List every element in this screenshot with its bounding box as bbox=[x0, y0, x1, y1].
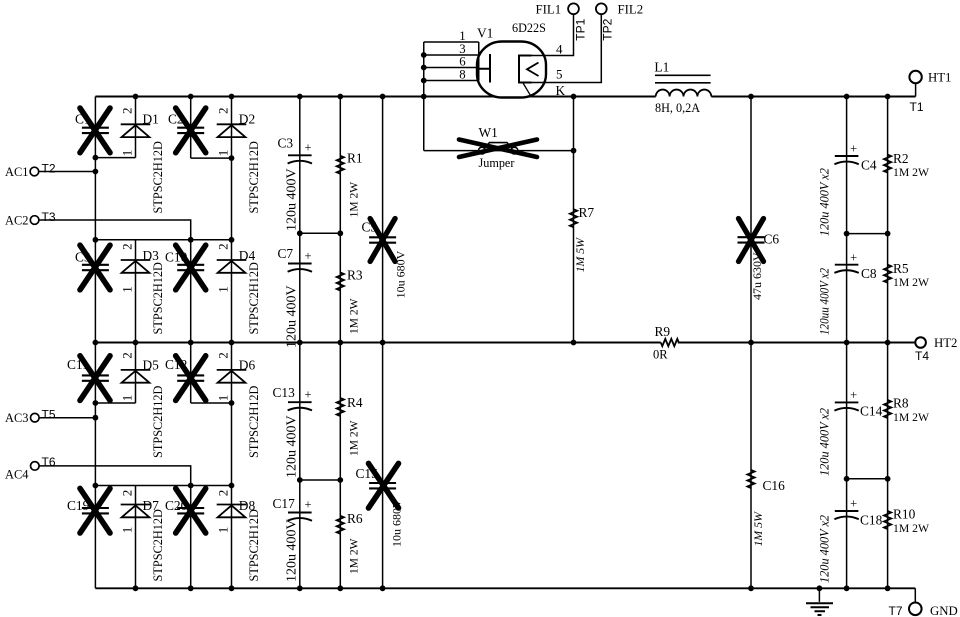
svg-text:1M 2W: 1M 2W bbox=[348, 538, 360, 574]
svg-text:D4: D4 bbox=[239, 248, 256, 263]
svg-text:AC2: AC2 bbox=[5, 214, 28, 228]
wire: C4/C8/C14/C18 column x=846.6 bbox=[846, 97, 848, 589]
svg-text:C7: C7 bbox=[278, 246, 294, 261]
svg-text:T4: T4 bbox=[915, 349, 929, 363]
wire: pin 4 to TP1 bbox=[532, 14, 574, 56]
svg-text:AC3: AC3 bbox=[5, 411, 28, 425]
svg-text:120u 400V: 120u 400V bbox=[285, 415, 300, 478]
wire: C6/C16 column x=751 bbox=[750, 97, 752, 589]
jumper W1 (crossed out) bbox=[459, 125, 537, 170]
svg-text:HT2: HT2 bbox=[934, 336, 957, 350]
resistor R9 0R (in HT2 rail) bbox=[653, 324, 679, 362]
wire: junction link C4-R2 bbox=[847, 233, 888, 235]
svg-text:10u 680V: 10u 680V bbox=[390, 499, 404, 547]
svg-text:HT1: HT1 bbox=[928, 71, 951, 85]
svg-text:T7: T7 bbox=[889, 604, 903, 617]
capacitor C3 120u 400V bbox=[278, 136, 312, 232]
svg-text:1: 1 bbox=[216, 286, 231, 293]
svg-text:120u 400V: 120u 400V bbox=[285, 519, 300, 582]
svg-text:1: 1 bbox=[216, 150, 231, 157]
svg-text:+: + bbox=[850, 142, 857, 156]
wire: row2 top link bbox=[95, 239, 231, 241]
capacitor C2 (crossed out) bbox=[168, 108, 206, 153]
svg-text:120u 400V x2: 120u 400V x2 bbox=[818, 168, 832, 236]
svg-text:+: + bbox=[304, 249, 311, 263]
capacitor C11 (crossed out) bbox=[67, 356, 110, 401]
svg-text:120u 400V: 120u 400V bbox=[285, 168, 300, 231]
svg-text:STPSC2H12D: STPSC2H12D bbox=[247, 509, 261, 582]
capacitor C18 120u 400V x2 bbox=[818, 497, 883, 583]
svg-text:4: 4 bbox=[556, 42, 563, 57]
svg-text:1: 1 bbox=[216, 527, 231, 534]
diode D7 bbox=[120, 490, 166, 582]
wire: row3 pair B bottom link bbox=[191, 402, 232, 404]
svg-text:R2: R2 bbox=[893, 151, 909, 166]
wire: C3/C7/C13/C17 column x=299.8 bbox=[299, 97, 301, 589]
resistor R5 1M 2W bbox=[884, 261, 930, 289]
svg-text:1: 1 bbox=[120, 395, 135, 402]
wire: junction link C3-R1 bbox=[300, 232, 341, 234]
svg-text:C4: C4 bbox=[861, 158, 877, 173]
svg-text:2: 2 bbox=[120, 107, 135, 114]
resistor R3 1M 2W bbox=[337, 268, 363, 335]
resistor R8 1M 2W bbox=[884, 396, 930, 425]
svg-text:C6: C6 bbox=[764, 232, 780, 247]
svg-text:2: 2 bbox=[120, 352, 135, 359]
svg-text:1: 1 bbox=[216, 395, 231, 402]
wire: C5/C15 column x=382.6 bbox=[382, 97, 384, 589]
wire: ladder left vertical and drop to jumper x=423.75 bbox=[423, 42, 425, 151]
resistor R10 1M 2W bbox=[884, 507, 930, 536]
svg-text:8H, 0,2A: 8H, 0,2A bbox=[655, 101, 700, 115]
svg-text:+: + bbox=[304, 498, 311, 512]
svg-text:8: 8 bbox=[459, 68, 465, 82]
junction dots: bridge row1 bottoms bbox=[93, 155, 235, 161]
svg-text:R4: R4 bbox=[347, 395, 363, 410]
wire: jumper net W1 horizontal bbox=[424, 150, 574, 152]
wire: bridge column A (C1/C9/C11/C19) vertical x=95.4 bbox=[94, 97, 96, 589]
svg-text:R7: R7 bbox=[579, 205, 595, 220]
svg-text:47u 630V: 47u 630V bbox=[750, 252, 764, 300]
svg-text:1M 5W: 1M 5W bbox=[751, 511, 765, 547]
wire: row1 pair B bottom link bbox=[191, 157, 232, 159]
svg-text:K: K bbox=[556, 83, 566, 98]
svg-text:1M 2W: 1M 2W bbox=[348, 298, 360, 334]
resistor R4 1M 2W bbox=[337, 395, 363, 456]
svg-text:D1: D1 bbox=[143, 112, 159, 127]
svg-text:1M 2W: 1M 2W bbox=[893, 276, 930, 289]
wire: R1/R3/R4/R6 column x=340.3 bbox=[339, 97, 341, 589]
svg-text:T1: T1 bbox=[910, 100, 924, 114]
svg-text:1M 2W: 1M 2W bbox=[893, 411, 930, 424]
wire: row4 top link bbox=[95, 485, 231, 487]
svg-text:R5: R5 bbox=[893, 261, 909, 276]
junction dots: C14-R8 link bbox=[844, 476, 891, 482]
resistor R7 1M 5W bbox=[570, 205, 595, 272]
wire: junction link C13-R4 bbox=[300, 479, 341, 481]
svg-text:120uu 400V x2: 120uu 400V x2 bbox=[818, 268, 832, 335]
svg-text:T3: T3 bbox=[42, 210, 56, 224]
capacitor C17 120u 400V bbox=[273, 496, 312, 582]
inductor L1 8H, 0.2A bbox=[654, 59, 711, 115]
diode D2 bbox=[216, 107, 262, 213]
ground symbol bbox=[806, 588, 833, 615]
svg-text:C3: C3 bbox=[278, 136, 294, 151]
wire: R2/R5/R8/R10 column x=887.6 bbox=[887, 97, 889, 589]
svg-text:TP1: TP1 bbox=[574, 18, 588, 40]
svg-text:TP2: TP2 bbox=[601, 18, 615, 40]
svg-text:D6: D6 bbox=[239, 357, 256, 372]
svg-text:1: 1 bbox=[120, 286, 135, 293]
capacitor C4 120u 400V x2 bbox=[818, 142, 877, 237]
junction dots: bridge row3 bottoms bbox=[93, 400, 235, 406]
tube V1 cathode bracket and heater arrow bbox=[519, 56, 539, 97]
svg-text:GND: GND bbox=[930, 604, 958, 617]
svg-text:T2: T2 bbox=[42, 162, 56, 176]
diode D8 bbox=[216, 490, 262, 582]
svg-text:0R: 0R bbox=[653, 348, 668, 362]
svg-text:2: 2 bbox=[120, 243, 135, 250]
junction dots: row2 top bbox=[93, 237, 235, 243]
svg-text:C14: C14 bbox=[860, 404, 883, 419]
diode D3 bbox=[120, 243, 166, 334]
svg-text:2: 2 bbox=[216, 352, 231, 359]
capacitor C10 (crossed out) bbox=[165, 245, 206, 290]
capacitor C14 120u 400V x2 bbox=[818, 388, 883, 476]
svg-text:6: 6 bbox=[459, 55, 466, 69]
svg-text:AC1: AC1 bbox=[5, 165, 28, 179]
resistor R2 1M 2W bbox=[884, 151, 930, 179]
terminal TP2 / FIL2 bbox=[596, 3, 643, 41]
resistor R6 1M 2W bbox=[337, 511, 363, 574]
svg-text:C18: C18 bbox=[860, 513, 883, 528]
svg-text:R9: R9 bbox=[655, 324, 671, 339]
svg-text:1M 2W: 1M 2W bbox=[893, 522, 930, 535]
junction dots: C13-R4 link bbox=[297, 477, 343, 483]
svg-text:+: + bbox=[850, 250, 857, 264]
svg-text:2: 2 bbox=[216, 243, 231, 250]
svg-text:1: 1 bbox=[120, 527, 135, 534]
svg-text:10u 680V: 10u 680V bbox=[394, 250, 408, 298]
capacitor C15 10u 680V (crossed out) bbox=[356, 463, 404, 547]
terminal TP1 / FIL1 bbox=[536, 3, 588, 41]
diode D5 bbox=[120, 352, 166, 458]
diode D4 bbox=[216, 243, 262, 334]
svg-text:STPSC2H12D: STPSC2H12D bbox=[247, 262, 261, 335]
svg-text:STPSC2H12D: STPSC2H12D bbox=[151, 509, 165, 582]
svg-text:R8: R8 bbox=[893, 396, 909, 411]
svg-text:L1: L1 bbox=[654, 59, 669, 74]
terminal AC3 / T5 bbox=[5, 408, 95, 426]
junction dot: AC1 tap bbox=[93, 169, 99, 175]
svg-text:1M 2W: 1M 2W bbox=[348, 182, 360, 218]
svg-text:2: 2 bbox=[120, 490, 135, 497]
svg-text:2: 2 bbox=[216, 490, 231, 497]
svg-text:+: + bbox=[304, 388, 311, 402]
svg-text:STPSC2H12D: STPSC2H12D bbox=[151, 385, 165, 458]
svg-text:1: 1 bbox=[459, 29, 465, 43]
capacitor C13 120u 400V bbox=[273, 385, 312, 478]
capacitor C6 47u 630V (crossed out) bbox=[738, 219, 780, 301]
svg-text:T5: T5 bbox=[42, 408, 56, 422]
wire: row1 pair A bottom link bbox=[95, 157, 135, 159]
svg-text:R1: R1 bbox=[347, 151, 363, 166]
svg-text:1M 2W: 1M 2W bbox=[893, 166, 930, 179]
junction dots: bottom ground rail bbox=[133, 585, 891, 591]
svg-text:STPSC2H12D: STPSC2H12D bbox=[151, 141, 165, 214]
svg-text:1M 2W: 1M 2W bbox=[348, 420, 360, 456]
svg-text:6D22S: 6D22S bbox=[512, 21, 546, 35]
wire: bottom ground rail bbox=[95, 587, 915, 589]
junction dots: top B+ rail bbox=[133, 94, 891, 100]
svg-text:5: 5 bbox=[556, 67, 563, 82]
svg-text:2: 2 bbox=[216, 107, 231, 114]
svg-text:+: + bbox=[850, 388, 857, 402]
capacitor C1 (crossed out) bbox=[75, 108, 110, 153]
capacitor C12 (crossed out) bbox=[165, 356, 206, 401]
svg-text:D5: D5 bbox=[143, 357, 160, 372]
svg-text:AC4: AC4 bbox=[5, 467, 28, 481]
svg-text:FIL2: FIL2 bbox=[618, 3, 644, 17]
diode D6 bbox=[216, 352, 262, 458]
resistor C16 1M 5W bbox=[747, 470, 785, 547]
capacitor C7 120u 400V bbox=[278, 246, 312, 348]
wire: bridge column D2/D4/D6/D8 vertical x=231.5 bbox=[231, 97, 233, 589]
junction dots: tube ladder pins bbox=[421, 52, 427, 83]
svg-text:C16: C16 bbox=[763, 478, 786, 493]
terminal T7 / GND bbox=[889, 588, 958, 617]
wire: HT2 middle rail bbox=[95, 342, 915, 344]
terminal HT2 / T4 bbox=[915, 336, 957, 363]
wire: bridge column D1/D3/D5/D7 vertical x=135.5 bbox=[135, 97, 137, 589]
svg-text:1M 5W: 1M 5W bbox=[573, 237, 587, 273]
wire: top B+ rail from bridge top to HT1 bbox=[95, 96, 915, 98]
svg-text:C8: C8 bbox=[861, 266, 877, 281]
wire: bridge column B (C2/C10/C12/C20) vertical x=190.7 bbox=[190, 97, 192, 589]
svg-text:STPSC2H12D: STPSC2H12D bbox=[247, 385, 261, 458]
terminal AC4 / T6 bbox=[5, 455, 191, 486]
capacitor C20 (crossed out) bbox=[165, 488, 206, 533]
svg-text:D3: D3 bbox=[143, 248, 160, 263]
junction dots: HT2 rail bbox=[93, 340, 891, 346]
svg-text:D2: D2 bbox=[239, 112, 255, 127]
wire: junction link C14-R8 bbox=[847, 478, 888, 480]
wire: pin 5 to TP2 bbox=[532, 14, 602, 82]
svg-text:+: + bbox=[304, 141, 311, 155]
junction dots: row4 top bbox=[93, 483, 235, 489]
svg-text:C17: C17 bbox=[273, 496, 296, 511]
svg-text:+: + bbox=[850, 497, 857, 511]
diode D1 bbox=[120, 107, 166, 213]
tube V1 anode bar and grid stub bbox=[479, 54, 490, 83]
wire: cathode K column down to HT2 (R7 column) x=573.5 bbox=[573, 97, 575, 343]
capacitor C19 (crossed out) bbox=[67, 488, 110, 533]
junction dot: jumper to K column bbox=[571, 148, 577, 154]
capacitor C5 10u 680V (crossed out) bbox=[362, 219, 408, 299]
terminal AC1 / T2 bbox=[5, 162, 95, 180]
svg-text:W1: W1 bbox=[479, 125, 498, 140]
svg-text:STPSC2H12D: STPSC2H12D bbox=[247, 141, 261, 214]
svg-text:STPSC2H12D: STPSC2H12D bbox=[151, 262, 165, 335]
svg-text:FIL1: FIL1 bbox=[536, 3, 562, 17]
capacitor C8 120uu 400V x2 bbox=[818, 250, 877, 335]
junction dots: C3-R1 link bbox=[297, 230, 343, 236]
svg-text:T6: T6 bbox=[42, 455, 56, 469]
svg-text:120u 400V x2: 120u 400V x2 bbox=[818, 408, 832, 476]
svg-text:120u 400V x2: 120u 400V x2 bbox=[818, 515, 832, 583]
capacitor C9 (crossed out) bbox=[75, 245, 110, 290]
resistor R1 1M 2W bbox=[337, 151, 363, 218]
svg-text:V1: V1 bbox=[477, 26, 493, 41]
tube V1 pin ladder with pins 1,3,6,8 bbox=[424, 29, 479, 82]
wire: row3 pair A bottom link bbox=[95, 402, 135, 404]
tube V1 6D22S envelope bbox=[477, 21, 546, 98]
terminal HT1 / T1 bbox=[909, 71, 951, 115]
junction dots: C4-R2 link bbox=[844, 231, 891, 237]
svg-text:R3: R3 bbox=[347, 268, 363, 283]
junction dot: AC3 tap bbox=[93, 415, 99, 421]
svg-text:R10: R10 bbox=[893, 507, 916, 522]
svg-text:C13: C13 bbox=[273, 385, 296, 400]
svg-text:120u 400V: 120u 400V bbox=[285, 285, 300, 348]
svg-text:Jumper: Jumper bbox=[479, 156, 515, 170]
svg-text:1: 1 bbox=[120, 150, 135, 157]
svg-text:R6: R6 bbox=[347, 511, 363, 526]
terminal AC2 / T3 bbox=[5, 210, 191, 240]
